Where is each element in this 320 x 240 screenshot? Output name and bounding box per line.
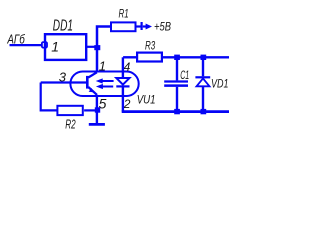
svg-text:1: 1 <box>99 58 106 73</box>
diode VD1 bottom lead <box>202 86 204 111</box>
pin 3 label <box>59 69 67 84</box>
node output junction <box>94 45 100 50</box>
power +5V arrow <box>143 24 152 30</box>
wire top rail <box>163 56 229 58</box>
R3 label <box>145 41 156 53</box>
resistor R1 <box>111 22 136 31</box>
+5В label <box>154 20 171 34</box>
wire R2 right <box>84 109 97 111</box>
node top VD1 <box>201 55 207 60</box>
svg-text:R2: R2 <box>65 117 75 131</box>
light arrow 2 <box>96 84 113 89</box>
diode VD1 cathode bar <box>195 76 210 78</box>
wire emitter pin 5 <box>96 95 98 124</box>
optocoupler VU1 body <box>70 72 138 97</box>
power +5V tap bar <box>141 22 143 30</box>
wire base pin 3 <box>41 81 86 83</box>
wire R2 left <box>41 83 58 111</box>
svg-text:C1: C1 <box>180 68 189 82</box>
transistor Q1 collector <box>88 72 97 77</box>
inverter input circle <box>42 42 47 48</box>
node АГб input label <box>7 32 26 47</box>
wire to R1 and pin 1 <box>97 27 111 73</box>
R1 label <box>119 9 129 21</box>
capacitor C1 bottom lead <box>176 87 178 112</box>
LED triangle <box>116 78 129 85</box>
op-amp U1 DD1 gate box <box>45 34 86 60</box>
wire pin 4 <box>122 57 124 78</box>
transistor Q1 emitter <box>88 87 97 95</box>
pin 2 label <box>123 97 131 111</box>
wire R1 right <box>137 25 141 27</box>
capacitor C1 top lead <box>176 57 178 80</box>
wire pin 2 <box>122 86 124 111</box>
resistor R3 <box>137 53 162 62</box>
VU1 label <box>137 93 156 107</box>
capacitor C1 plates <box>164 82 188 86</box>
svg-text:4: 4 <box>124 60 131 74</box>
C1 label <box>180 68 189 82</box>
wire input <box>10 44 42 46</box>
node top C1 <box>174 55 180 60</box>
svg-text:1: 1 <box>51 38 59 54</box>
diode VD1 top lead <box>202 57 204 76</box>
R2 label <box>65 117 75 131</box>
VD1 label <box>211 77 229 91</box>
svg-text:VD1: VD1 <box>211 77 229 91</box>
LED cathode bar <box>116 85 129 87</box>
svg-text:R1: R1 <box>119 9 129 21</box>
DD1 label <box>53 17 73 34</box>
wire bottom rail <box>122 110 229 113</box>
gate function label 1 <box>51 38 59 54</box>
diode VD1 triangle <box>197 78 210 86</box>
ground <box>89 123 105 126</box>
svg-text:VU1: VU1 <box>137 93 156 107</box>
node bottom VD1 <box>201 109 207 114</box>
node bottom C1 <box>174 109 180 114</box>
svg-text:+5В: +5В <box>154 20 171 34</box>
node R2 junction <box>95 107 100 112</box>
svg-text:R3: R3 <box>145 41 156 53</box>
pin 4 label <box>124 60 131 74</box>
wire gate output <box>86 46 97 48</box>
resistor R2 <box>57 106 82 115</box>
svg-text:DD1: DD1 <box>53 17 73 34</box>
light arrow 1 <box>96 78 114 83</box>
pin 1 label <box>99 58 106 73</box>
wire R3 left <box>123 56 137 58</box>
transistor Q1 base bar <box>86 76 89 89</box>
pin 5 label <box>99 96 107 112</box>
